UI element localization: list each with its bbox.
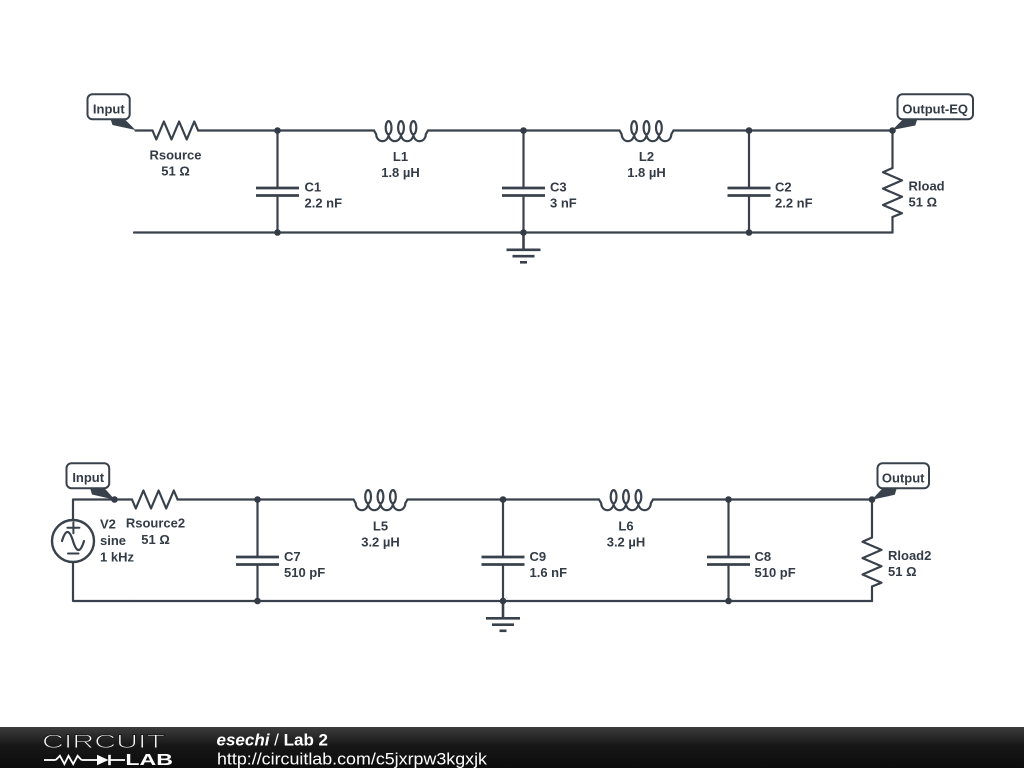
rail dot under C9 xyxy=(500,598,507,605)
resistor Rsource2 xyxy=(132,491,178,509)
svg-text:C2: C2 xyxy=(775,180,792,195)
wire output corner down to Rload2 xyxy=(871,500,873,538)
logo schematic line with resistor and diode xyxy=(44,755,125,765)
inductor L1 xyxy=(374,131,428,142)
capacitor C3 vertical leads xyxy=(522,131,524,187)
svg-text:C8: C8 xyxy=(755,549,772,564)
component labels top circuit xyxy=(149,148,944,211)
node D dot xyxy=(254,496,261,503)
V2 plus mark xyxy=(67,522,79,533)
svg-text:Output: Output xyxy=(882,470,925,485)
inductor L2 xyxy=(620,131,674,142)
svg-text:1.6 nF: 1.6 nF xyxy=(530,565,568,580)
capacitor C9 vertical leads xyxy=(502,500,504,556)
capacitor C7 plates xyxy=(236,557,279,565)
svg-text:C9: C9 xyxy=(530,549,547,564)
capacitor C9 plates xyxy=(482,557,525,565)
wire Rload2 to rail xyxy=(871,587,873,602)
node Output dot xyxy=(869,496,876,503)
svg-text:1.8 µH: 1.8 µH xyxy=(381,165,420,180)
resistor Rload xyxy=(883,168,902,217)
capacitor C8 plates xyxy=(707,557,750,565)
svg-text:Input: Input xyxy=(93,101,125,116)
resistor Rsource xyxy=(153,122,199,140)
wire L2 to node C xyxy=(674,129,750,131)
svg-text:Rload: Rload xyxy=(909,179,945,194)
svg-text:51 Ω: 51 Ω xyxy=(909,195,938,210)
wire node D to L5 xyxy=(258,498,354,500)
svg-text:3.2 µH: 3.2 µH xyxy=(361,535,400,550)
wire node E to L6 xyxy=(503,498,599,500)
svg-text:CIRCUIT: CIRCUIT xyxy=(42,731,165,753)
node Output-EQ dot xyxy=(889,127,896,134)
wire V2 bottom to rail xyxy=(73,562,132,601)
wire Rload to ground rail xyxy=(891,217,893,233)
rail dot under C1 xyxy=(274,229,281,236)
wire L5 to node E xyxy=(408,498,504,500)
node E dot xyxy=(500,496,507,503)
flag Output-EQ (top) xyxy=(892,94,973,130)
capacitor C2 plates xyxy=(728,188,771,196)
V2 sine mark xyxy=(62,532,84,550)
wire L6 to node F xyxy=(653,498,729,500)
svg-text:esechi / Lab 2: esechi / Lab 2 xyxy=(217,731,329,750)
inductor L6 xyxy=(599,500,653,511)
svg-text:510 pF: 510 pF xyxy=(284,565,325,580)
capacitor C3 plates xyxy=(502,188,545,196)
svg-text:LAB: LAB xyxy=(125,752,172,768)
capacitor C8 vertical leads xyxy=(727,500,729,556)
wire Rsource2 to node D xyxy=(178,498,258,500)
svg-text:Input: Input xyxy=(72,470,104,485)
wire input lead to Rsource xyxy=(136,129,153,131)
capacitor C1 plates xyxy=(256,188,299,196)
node A dot xyxy=(274,127,281,134)
V2 minus mark xyxy=(68,553,79,555)
node C dot xyxy=(746,127,753,134)
rail dot under C3 xyxy=(520,229,527,236)
capacitor C2 vertical leads xyxy=(748,131,750,187)
svg-text:510 pF: 510 pF xyxy=(755,565,796,580)
svg-text:L1: L1 xyxy=(393,149,408,164)
svg-text:3 nF: 3 nF xyxy=(550,196,577,211)
svg-text:C3: C3 xyxy=(550,180,567,195)
node Input2 dot xyxy=(111,496,118,503)
flag Input (top) xyxy=(88,94,136,130)
ground bottom circuit xyxy=(486,601,520,631)
capacitor C1 vertical leads xyxy=(276,131,278,187)
svg-text:51 Ω: 51 Ω xyxy=(141,532,170,547)
footer bar xyxy=(0,727,1024,768)
wire node C to output corner xyxy=(749,129,893,131)
rail dot under C8 xyxy=(725,598,732,605)
svg-text:Rload2: Rload2 xyxy=(888,548,931,563)
wire node A to L1 xyxy=(278,129,375,131)
component labels bottom circuit xyxy=(100,516,931,581)
wire node F to output corner xyxy=(729,498,873,500)
wire ground rail top circuit xyxy=(134,231,893,233)
svg-text:1 kHz: 1 kHz xyxy=(100,550,134,565)
svg-text:3.2 µH: 3.2 µH xyxy=(607,535,646,550)
rail dot under C2 xyxy=(746,229,753,236)
svg-text:Rsource2: Rsource2 xyxy=(126,516,185,531)
svg-text:sine: sine xyxy=(100,533,126,548)
rail dot under C7 xyxy=(254,598,261,605)
svg-text:L2: L2 xyxy=(639,149,654,164)
node F dot xyxy=(725,496,732,503)
flag Output (bottom) xyxy=(872,463,929,499)
svg-text:1.8 µH: 1.8 µH xyxy=(627,165,666,180)
svg-text:L5: L5 xyxy=(373,519,388,534)
wire output corner down to Rload xyxy=(891,131,893,169)
voltage source V2 xyxy=(52,520,94,562)
svg-text:2.2 nF: 2.2 nF xyxy=(775,196,813,211)
wire V2 top to input node xyxy=(73,500,132,521)
wire Rsource to node A xyxy=(198,129,277,131)
svg-text:51 Ω: 51 Ω xyxy=(161,164,190,179)
svg-text:V2: V2 xyxy=(100,517,116,532)
svg-text:http://circuitlab.com/c5jxrpw3: http://circuitlab.com/c5jxrpw3kgxjk xyxy=(217,750,488,768)
wire node B to L2 xyxy=(524,129,620,131)
capacitor C7 vertical leads xyxy=(256,500,258,556)
wire L1 to node B xyxy=(428,129,524,131)
ground top circuit xyxy=(507,233,541,263)
node B dot xyxy=(520,127,527,134)
svg-text:Output-EQ: Output-EQ xyxy=(902,101,968,116)
svg-text:C1: C1 xyxy=(305,180,322,195)
resistor Rload2 xyxy=(863,538,882,587)
flag Input (bottom) xyxy=(67,463,115,500)
logo diode triangle xyxy=(97,755,109,765)
svg-text:51 Ω: 51 Ω xyxy=(888,564,917,579)
inductor L5 xyxy=(354,500,408,511)
svg-text:Rsource: Rsource xyxy=(149,148,201,163)
wire ground rail bottom circuit xyxy=(132,600,872,602)
svg-text:2.2 nF: 2.2 nF xyxy=(305,196,343,211)
svg-text:L6: L6 xyxy=(618,519,633,534)
svg-text:C7: C7 xyxy=(284,549,301,564)
